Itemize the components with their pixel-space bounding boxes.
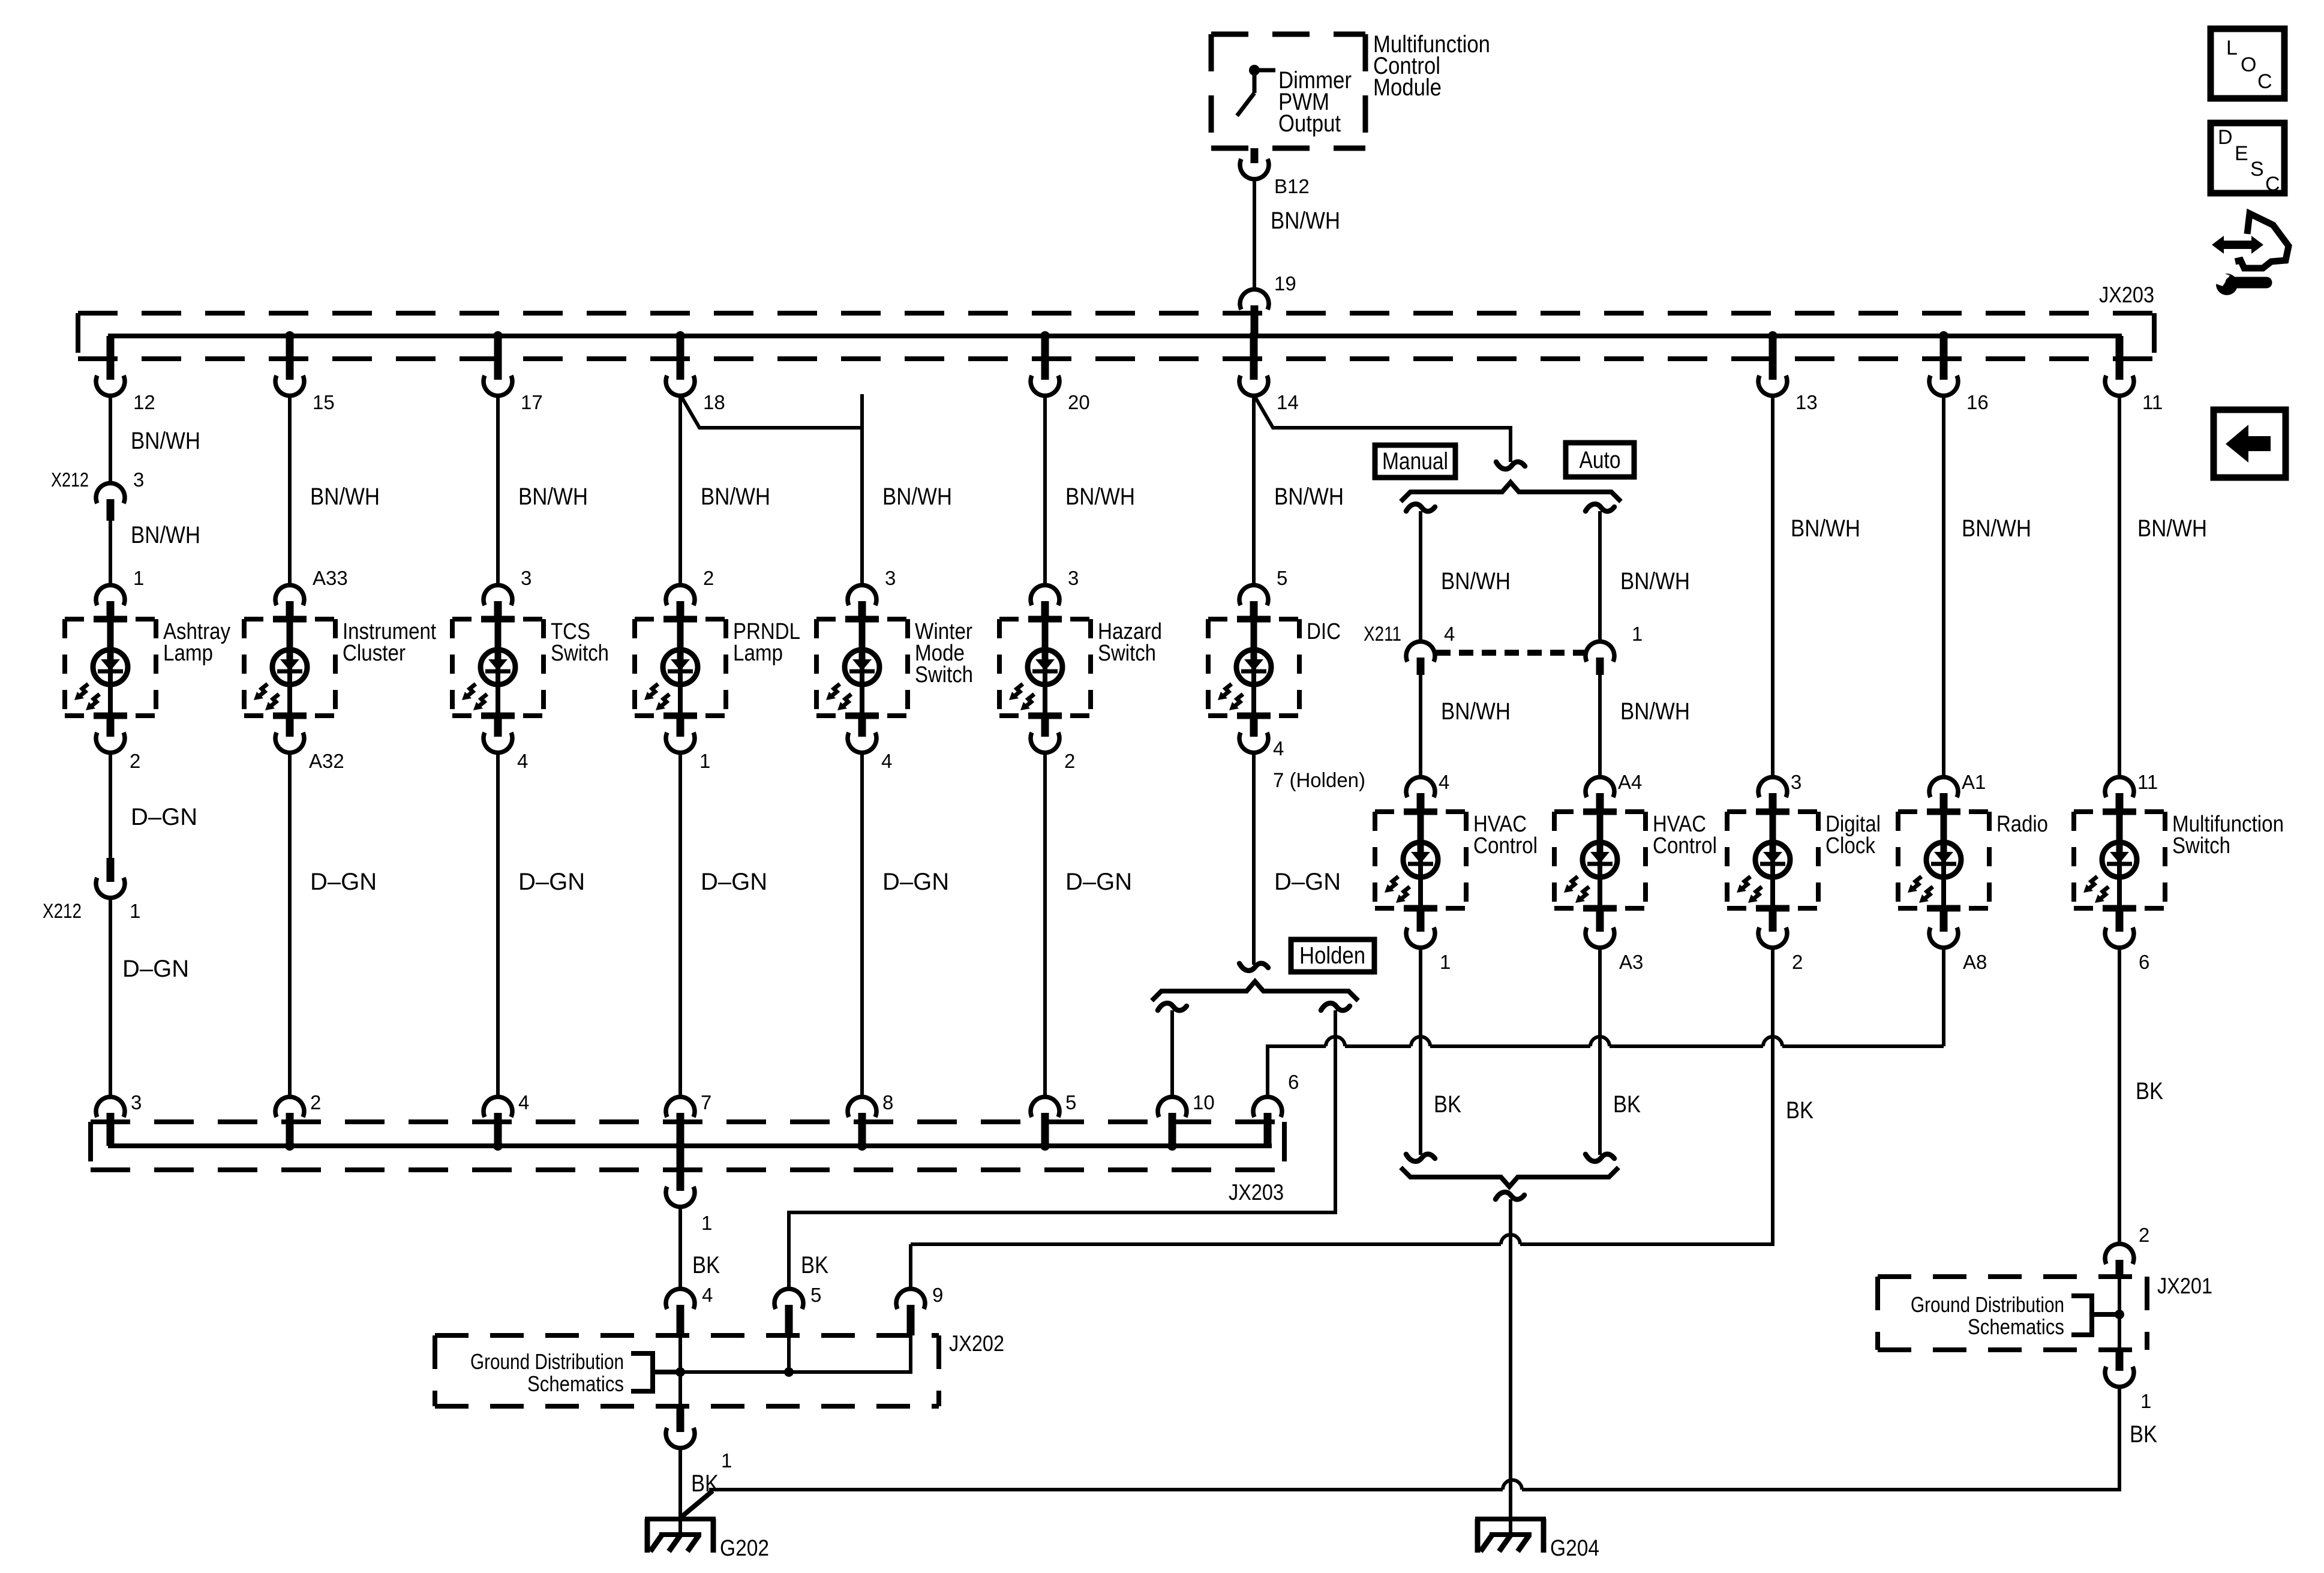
svg-text:G204: G204 bbox=[1550, 1536, 1599, 1561]
hop over clock wire bbox=[1763, 1037, 1782, 1046]
hop over holden arm bbox=[1326, 1037, 1345, 1046]
svg-text:5: 5 bbox=[1277, 567, 1287, 589]
label BK JX201 bbox=[2130, 1421, 2157, 1448]
wire BN/WH col10 bbox=[1771, 394, 1774, 779]
label bus pin 3 bbox=[131, 1091, 142, 1113]
svg-text:9: 9 bbox=[932, 1284, 943, 1306]
JX202 pin 4 stub bbox=[677, 1305, 684, 1335]
pin 13 stub from bus bbox=[1769, 336, 1777, 380]
dimmer PWM output symbol bbox=[1237, 65, 1275, 116]
connector lamp bottom pin 1 bbox=[666, 733, 695, 753]
JX202 out stub bbox=[677, 1406, 684, 1432]
connector B12 bbox=[1240, 159, 1269, 179]
label pin A3 bbox=[1619, 951, 1643, 973]
label 2 JX201 bbox=[2139, 1224, 2149, 1246]
connector JX201 pin 2 bbox=[2105, 1244, 2134, 1264]
svg-text:4: 4 bbox=[517, 750, 528, 772]
label JX202 bbox=[949, 1331, 1004, 1356]
connector JX202 pin 4 bbox=[666, 1289, 695, 1309]
label pin 2 bbox=[130, 750, 140, 772]
label JX202 pin 9 bbox=[932, 1284, 943, 1306]
junction on bottom JX203 at x=1437 bbox=[857, 1141, 867, 1151]
svg-text:1: 1 bbox=[130, 900, 140, 922]
svg-text:Manual: Manual bbox=[1382, 448, 1448, 475]
squiggle manual arm bbox=[1406, 504, 1435, 511]
wire BN/WH col12 bbox=[2118, 394, 2121, 779]
bus JX203 top dashed box bbox=[78, 313, 2154, 359]
connector row2 top pin A4 bbox=[1586, 777, 1614, 797]
label 1 X212 bbox=[130, 900, 140, 922]
svg-text:BN/WH: BN/WH bbox=[1274, 484, 1344, 510]
svg-text:2: 2 bbox=[1792, 951, 1803, 973]
label pin 1 bbox=[699, 750, 710, 772]
label HVAC Control bbox=[1653, 812, 1717, 858]
svg-text:Schematics: Schematics bbox=[1968, 1314, 2064, 1339]
connector bus pin 5 bbox=[1031, 1097, 1059, 1117]
label pin 2 bbox=[1792, 951, 1803, 973]
svg-text:13: 13 bbox=[1795, 391, 1818, 413]
bus JX203 bottom dashed box bbox=[91, 1122, 1284, 1170]
connector JX201 pin 1 bbox=[2105, 1367, 2134, 1387]
wire BN/WH col4 bbox=[678, 394, 682, 587]
connector 17 bbox=[484, 376, 512, 396]
label X212 upper bbox=[51, 469, 89, 491]
label 19 bbox=[1274, 272, 1296, 295]
svg-text:O: O bbox=[2241, 53, 2256, 76]
svg-text:Radio: Radio bbox=[1996, 812, 2048, 837]
label G204 bbox=[1550, 1536, 1599, 1561]
wire D-GN col6 bbox=[1043, 751, 1047, 1098]
svg-text:Ground Distribution: Ground Distribution bbox=[1911, 1292, 2064, 1317]
svg-text:1: 1 bbox=[1440, 951, 1451, 973]
row2 pin stub bbox=[1940, 793, 1948, 812]
svg-text:20: 20 bbox=[1068, 391, 1090, 413]
svg-text:Module: Module bbox=[1373, 74, 1442, 101]
label 4 X211 bbox=[1444, 623, 1455, 645]
wire BN/WH col1 upper bbox=[109, 394, 112, 485]
pin 1 stub below bus bbox=[677, 1146, 684, 1191]
svg-text:4: 4 bbox=[1439, 771, 1449, 793]
label Ground Distribution Schematics JX202 bbox=[470, 1349, 624, 1396]
connector row2 top pin 4 bbox=[1406, 777, 1435, 797]
svg-text:X212: X212 bbox=[43, 900, 82, 923]
connector row2 bottom pin 6 bbox=[2105, 927, 2134, 948]
label 13 bbox=[1795, 391, 1818, 413]
junction on JX203 at x=483 bbox=[285, 331, 295, 341]
connector lamp bottom pin 4 bbox=[484, 733, 512, 753]
wire D-GN col1 lower bbox=[109, 896, 112, 1098]
lamp DIC col7 bbox=[1208, 619, 1299, 716]
pin stub out of lamp bbox=[1041, 716, 1049, 737]
label box Auto bbox=[1566, 443, 1634, 477]
squiggle HVAC auto end bbox=[1586, 1154, 1614, 1161]
row2 pin stub out bbox=[1596, 908, 1604, 932]
label 12 bbox=[133, 391, 155, 413]
label PRNDL Lamp bbox=[733, 619, 800, 666]
pin 6 stub bbox=[1264, 1113, 1272, 1146]
label box Holden bbox=[1291, 939, 1374, 972]
pin 15 stub from bus bbox=[286, 336, 294, 380]
label BN/WH lower auto bbox=[1620, 698, 1690, 725]
label JX202 pin 4 bbox=[702, 1284, 713, 1306]
label BN/WH col2 bbox=[310, 484, 380, 510]
label BN/WH col4 bbox=[701, 484, 770, 510]
label BN/WH col3 bbox=[518, 484, 588, 510]
row2 pin stub out bbox=[1769, 908, 1777, 932]
svg-text:3: 3 bbox=[131, 1091, 142, 1113]
svg-text:1: 1 bbox=[721, 1449, 732, 1472]
svg-text:B12: B12 bbox=[1274, 175, 1310, 197]
svg-text:D–GN: D–GN bbox=[122, 956, 189, 982]
squiggle wire 14 end bbox=[1496, 462, 1525, 469]
connector 12 bbox=[96, 376, 125, 396]
label pin 2 bbox=[703, 567, 714, 589]
svg-text:11: 11 bbox=[2142, 391, 2163, 413]
row2 pin stub bbox=[1417, 793, 1425, 812]
pin 18 stub from bus bbox=[677, 336, 684, 380]
lamp TCS col3 bbox=[452, 619, 544, 716]
row2 pin stub out bbox=[1417, 908, 1425, 932]
connector row2 bottom pin A3 bbox=[1586, 927, 1614, 948]
connector lamp top pin 5 bbox=[1239, 585, 1268, 605]
label bus pin 4 bbox=[518, 1091, 529, 1113]
svg-text:4: 4 bbox=[1273, 737, 1284, 760]
pin stub into lamp bbox=[494, 601, 502, 619]
lamp Hazard col6 bbox=[999, 619, 1091, 716]
lamp Instrument col2 bbox=[244, 619, 335, 716]
svg-text:G202: G202 bbox=[720, 1536, 769, 1561]
junction on bottom JX203 at x=1742 bbox=[1040, 1141, 1050, 1151]
svg-text:14: 14 bbox=[1277, 391, 1299, 413]
icon LOC reference box bbox=[2211, 29, 2284, 98]
label pin 5 bbox=[1277, 567, 1287, 589]
wire D-GN col3 bbox=[496, 751, 500, 1098]
label BK HVAC manual bbox=[1434, 1091, 1461, 1118]
icon DESC reference box bbox=[2211, 123, 2284, 196]
wire branch from 18 to winter mode bbox=[680, 395, 862, 587]
wire JX202 internal bbox=[680, 1335, 911, 1406]
lamp Winter col5 bbox=[816, 619, 908, 716]
label pin 1 bbox=[133, 567, 144, 589]
svg-text:DIC: DIC bbox=[1307, 619, 1341, 644]
brace HVAC grounds bbox=[1401, 1167, 1619, 1187]
wire BK HVAC manual bbox=[1419, 946, 1422, 1155]
label BN/WH manual bbox=[1441, 568, 1511, 595]
icon back arrow box bbox=[2214, 410, 2286, 478]
label X211 bbox=[1364, 623, 1401, 646]
pin 12 stub from bus bbox=[107, 336, 115, 380]
pin stub out of lamp bbox=[494, 716, 502, 737]
label BN/WH bbox=[1271, 208, 1340, 234]
label 14 bbox=[1277, 391, 1299, 413]
label 1 X211 bbox=[1632, 623, 1643, 645]
svg-text:3: 3 bbox=[1791, 771, 1801, 793]
connector JX202 pin 9 bbox=[896, 1289, 925, 1309]
svg-text:Cluster: Cluster bbox=[343, 641, 406, 666]
hop over HVAC1 wire bbox=[1411, 1037, 1430, 1046]
svg-text:3: 3 bbox=[521, 567, 532, 589]
label 20 bbox=[1068, 391, 1090, 413]
label DIC bbox=[1307, 619, 1341, 644]
wire BN/WH col11 bbox=[1942, 394, 1945, 779]
label BN/WH col12 bbox=[2137, 515, 2207, 542]
pin stub into lamp bbox=[858, 601, 866, 619]
pin stub into lamp bbox=[1041, 601, 1049, 619]
lamp Multifunction Switch col12 bbox=[2074, 812, 2165, 908]
wire X211-4 to HVAC bbox=[1419, 675, 1422, 779]
junction on JX203 at x=2090 bbox=[1249, 331, 1259, 341]
junction on bottom JX203 at x=830 bbox=[493, 1141, 503, 1151]
pin X212-3 stub bbox=[107, 499, 115, 521]
svg-text:2: 2 bbox=[130, 750, 140, 772]
svg-text:BK: BK bbox=[801, 1252, 828, 1278]
junction on JX203 at x=830 bbox=[493, 331, 503, 341]
label D-GN col1 upper bbox=[131, 804, 197, 830]
dashed link X211 bbox=[1436, 650, 1584, 656]
pin stub into lamp bbox=[286, 601, 294, 619]
svg-text:Ground Distribution: Ground Distribution bbox=[470, 1349, 624, 1374]
connector 13 bbox=[1758, 376, 1787, 396]
label BK G202 leg bbox=[691, 1470, 719, 1497]
wire D-GN col1 upper bbox=[109, 751, 112, 858]
junction dot JX201 bbox=[2115, 1310, 2124, 1319]
svg-text:D–GN: D–GN bbox=[131, 804, 197, 830]
wire D-GN col4 bbox=[678, 751, 682, 1098]
label JX202 pin 5 bbox=[810, 1284, 821, 1306]
pin stub into lamp bbox=[677, 601, 684, 619]
JX201 pin 2 stub bbox=[2116, 1260, 2124, 1277]
pin 20 stub from bus bbox=[1041, 336, 1049, 380]
label BN/WH col1 lower bbox=[131, 522, 200, 548]
svg-text:1: 1 bbox=[1632, 623, 1643, 645]
svg-text:Switch: Switch bbox=[915, 662, 973, 688]
label pin 6 bbox=[2139, 951, 2149, 973]
label pin A1 bbox=[1962, 771, 1986, 793]
wire BK bus pin6 to radio A8 bbox=[1268, 946, 1944, 1098]
label BK jx202 mid bbox=[801, 1252, 828, 1278]
svg-text:BN/WH: BN/WH bbox=[310, 484, 380, 510]
hop over HVAC2 wire bbox=[1590, 1037, 1610, 1046]
connector X211 pin 4 bbox=[1406, 641, 1435, 662]
svg-text:2: 2 bbox=[703, 567, 714, 589]
connector bus pin 10 bbox=[1158, 1097, 1187, 1117]
wire manual arm to X211 pin 4 bbox=[1419, 511, 1422, 643]
connector X211 pin 1 bbox=[1586, 641, 1614, 662]
JX202 pin 9 stub bbox=[907, 1305, 915, 1335]
svg-text:Switch: Switch bbox=[551, 641, 609, 666]
svg-text:D: D bbox=[2218, 126, 2233, 149]
label Multifunction Control Module bbox=[1373, 31, 1490, 101]
svg-text:8: 8 bbox=[882, 1091, 893, 1113]
connector JX202 pin 5 bbox=[774, 1289, 803, 1309]
label D-GN col3 bbox=[518, 869, 585, 895]
squiggle under brace G204 bbox=[1496, 1192, 1524, 1199]
row2 pin stub bbox=[1596, 793, 1604, 812]
svg-text:A4: A4 bbox=[1618, 771, 1642, 793]
label JX203 top bbox=[2099, 283, 2154, 307]
svg-text:15: 15 bbox=[313, 391, 335, 413]
connector bus pin 4 bbox=[484, 1097, 512, 1117]
svg-text:A32: A32 bbox=[309, 750, 344, 772]
label 3 X212 bbox=[133, 469, 144, 491]
svg-text:JX202: JX202 bbox=[949, 1331, 1004, 1356]
junction on JX203 at x=1134 bbox=[675, 331, 685, 341]
label BN/WH col1 bbox=[131, 428, 200, 454]
connector lamp top pin 1 bbox=[96, 585, 125, 605]
pin stub into lamp bbox=[1250, 601, 1258, 619]
bracket JX201 bbox=[2071, 1296, 2119, 1335]
connector 15 bbox=[275, 376, 304, 396]
lamp Ashtray col1 bbox=[65, 619, 156, 716]
svg-text:D–GN: D–GN bbox=[1274, 869, 1341, 895]
wire BN/WH col1 lower bbox=[109, 521, 112, 587]
label Digital Clock bbox=[1825, 812, 1881, 858]
svg-text:X212: X212 bbox=[51, 469, 89, 491]
wire BN/WH from module to JX203 bbox=[1253, 178, 1256, 291]
wire X211-1 to HVAC bbox=[1598, 675, 1602, 779]
label D-GN col1 lower bbox=[122, 956, 189, 982]
label Ashtray Lamp bbox=[163, 619, 230, 666]
pin stub into bottom bus bbox=[1041, 1113, 1049, 1146]
svg-text:4: 4 bbox=[518, 1091, 529, 1113]
svg-text:12: 12 bbox=[133, 391, 155, 413]
connector lamp top pin 3 bbox=[1031, 585, 1059, 605]
svg-text:2: 2 bbox=[310, 1091, 321, 1113]
label BK clock bbox=[1786, 1097, 1813, 1124]
row2 pin stub out bbox=[1940, 908, 1948, 932]
svg-text:7: 7 bbox=[701, 1091, 711, 1113]
connector pin 1 G202 leg bbox=[666, 1428, 695, 1448]
svg-text:E: E bbox=[2235, 142, 2248, 165]
label 1 JX201 bbox=[2140, 1390, 2151, 1412]
svg-text:BN/WH: BN/WH bbox=[1441, 568, 1511, 595]
X211 pin 1 stub bbox=[1596, 658, 1604, 675]
brace Holden bbox=[1152, 981, 1358, 1001]
label bus pin 5 bbox=[1065, 1091, 1076, 1113]
wire BK clock to JX202 pin 9 bbox=[911, 946, 1773, 1290]
label Instrument Cluster bbox=[343, 619, 436, 666]
connector lamp bottom pin 2 bbox=[96, 733, 125, 753]
svg-text:3: 3 bbox=[885, 567, 896, 589]
wire junction diagonal at G202 bbox=[680, 1491, 713, 1518]
svg-text:BK: BK bbox=[1613, 1091, 1641, 1118]
label 1 G202 leg bbox=[721, 1449, 732, 1472]
svg-text:1: 1 bbox=[699, 750, 710, 772]
wire BN/WH col2 bbox=[288, 394, 292, 587]
svg-text:4: 4 bbox=[1444, 623, 1455, 645]
pin stub into bottom bus bbox=[286, 1113, 294, 1146]
connector 16 bbox=[1929, 376, 1958, 396]
connector bus pin 8 bbox=[848, 1097, 876, 1117]
label BN/WH lower manual bbox=[1441, 698, 1511, 725]
hop over G204 wire at 2074 bbox=[1501, 1235, 1520, 1244]
connector 11 bbox=[2105, 376, 2134, 396]
svg-text:JX203: JX203 bbox=[1229, 1180, 1284, 1205]
connector 18 bbox=[666, 376, 695, 396]
connector row2 bottom pin 1 bbox=[1406, 927, 1435, 948]
connector 14 bbox=[1239, 376, 1268, 396]
label Radio bbox=[1996, 812, 2048, 837]
multifunction control module box bbox=[1211, 34, 1365, 148]
wire to G204 bbox=[1509, 1199, 1512, 1535]
connector bus pin 3 bbox=[96, 1097, 125, 1117]
connector row2 bottom pin A8 bbox=[1929, 927, 1958, 948]
pin stub into bottom bus bbox=[494, 1113, 502, 1146]
svg-text:3: 3 bbox=[1068, 567, 1079, 589]
connector row2 bottom pin 2 bbox=[1758, 927, 1787, 948]
label 18 bbox=[703, 391, 725, 413]
icon diagnostic pointer with double arrow and wrench bbox=[2209, 214, 2289, 295]
wire D-GN col5 bbox=[860, 751, 864, 1098]
pin stub out of lamp bbox=[677, 716, 684, 737]
label B12 bbox=[1274, 175, 1310, 197]
svg-text:Lamp: Lamp bbox=[733, 641, 783, 666]
svg-text:BN/WH: BN/WH bbox=[1441, 698, 1511, 725]
label Multifunction Switch bbox=[2172, 812, 2284, 858]
squiggle DIC wire end bbox=[1239, 963, 1268, 971]
lamp HVAC Control col9 bbox=[1554, 812, 1646, 908]
svg-text:16: 16 bbox=[1966, 391, 1989, 413]
svg-text:BN/WH: BN/WH bbox=[2137, 515, 2207, 542]
wire holden left arm to bus pin 10 bbox=[1170, 1010, 1174, 1098]
svg-text:X211: X211 bbox=[1364, 623, 1401, 646]
pin stub into lamp bbox=[107, 601, 115, 619]
svg-text:BK: BK bbox=[1786, 1097, 1813, 1124]
connector lamp top pin 2 bbox=[666, 585, 695, 605]
svg-text:BN/WH: BN/WH bbox=[1791, 515, 1860, 542]
label BN/WH col5 bbox=[882, 484, 952, 510]
label BK col4 bbox=[692, 1252, 720, 1278]
connector pin 1 below bus bbox=[666, 1187, 695, 1207]
svg-text:Holden: Holden bbox=[1299, 942, 1365, 969]
label Winter Mode Switch bbox=[915, 619, 973, 688]
connector lamp bottom pin 4 bbox=[848, 733, 876, 753]
label pin A32 bbox=[309, 750, 344, 772]
svg-text:1: 1 bbox=[133, 567, 144, 589]
label pin 11 bbox=[2137, 771, 2158, 793]
junction dot JX202 a bbox=[675, 1367, 685, 1377]
svg-text:BN/WH: BN/WH bbox=[701, 484, 770, 510]
label TCS Switch bbox=[551, 619, 609, 666]
label D-GN DIC bbox=[1274, 869, 1341, 895]
label pin 3 bbox=[1791, 771, 1801, 793]
squiggle holden left arm bbox=[1158, 1003, 1187, 1010]
wire BK JX201 to ground run bbox=[709, 1385, 2119, 1490]
svg-text:2: 2 bbox=[1064, 750, 1075, 772]
wire holden right arm to JX202 pin 5 bbox=[789, 1010, 1335, 1290]
wire BN/WH col5 bbox=[860, 394, 864, 587]
svg-text:BN/WH: BN/WH bbox=[131, 522, 200, 548]
connector 19 bbox=[1240, 289, 1269, 310]
junction box JX201 dashed box bbox=[1878, 1277, 2147, 1350]
label JX201 bbox=[2157, 1274, 2212, 1298]
svg-text:BN/WH: BN/WH bbox=[1620, 568, 1690, 595]
svg-text:BN/WH: BN/WH bbox=[1620, 698, 1690, 725]
svg-text:D–GN: D–GN bbox=[310, 869, 377, 895]
lamp Radio col11 bbox=[1898, 812, 1989, 908]
wire D-GN DIC bbox=[1252, 751, 1256, 965]
label G202 bbox=[720, 1536, 769, 1561]
svg-text:7 (Holden): 7 (Holden) bbox=[1273, 769, 1365, 792]
junction on bottom JX203 at x=483 bbox=[285, 1141, 295, 1151]
label 7 (Holden) DIC pin bbox=[1273, 769, 1365, 792]
svg-text:S: S bbox=[2250, 158, 2264, 181]
connector row2 top pin 3 bbox=[1758, 777, 1787, 797]
svg-text:Output: Output bbox=[1278, 110, 1341, 137]
junction on bottom JX203 at x=1954 bbox=[1167, 1141, 1177, 1151]
bus JX203 bottom solid wire bbox=[110, 1113, 1272, 1146]
label pin A4 bbox=[1618, 771, 1642, 793]
